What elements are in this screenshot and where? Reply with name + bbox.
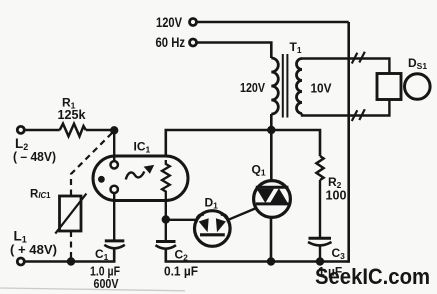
node B junction [110, 126, 118, 134]
wire secondary bottom lead to D51 [302, 100, 389, 116]
terminal L2 [13, 126, 56, 164]
photoresistor RIC1 [30, 189, 86, 234]
secondary winding 10V [297, 59, 303, 114]
svg-text:120V: 120V [240, 81, 266, 95]
terminal 120V input [156, 14, 197, 30]
optocoupler IC1 [93, 140, 188, 201]
wire L2 to R1 [24, 129, 59, 132]
svg-text:( – 48V): ( – 48V) [13, 149, 56, 164]
wire R2 to C3 [319, 180, 321, 238]
neon lamp electrodes [111, 161, 118, 168]
junction rail RIC1 [67, 257, 75, 265]
break marks top [352, 52, 365, 64]
wire C2 to bottom rail [166, 250, 349, 262]
wire bottom-left rail L1 to C1 [24, 249, 114, 261]
svg-text:120V: 120V [156, 14, 183, 30]
junction C3 rail [316, 257, 324, 265]
photoresistor element [162, 160, 170, 200]
wire right vertical 120V down to bottom rail [347, 22, 350, 263]
wire node B into lamp [113, 130, 115, 161]
wire primary bottom to node A [270, 114, 273, 131]
wire node C to D1 [166, 219, 197, 221]
optical coupling arrow [126, 172, 145, 180]
svg-text:125k: 125k [58, 107, 87, 122]
svg-text:( + 48V): ( + 48V) [10, 242, 57, 257]
wire lamp to C1 [113, 193, 115, 241]
wire 60Hz line to transformer primary [197, 43, 271, 59]
capacitor C3 [308, 238, 345, 278]
wire dashed node B to RIC1 [71, 133, 112, 196]
resistor R2 100 [316, 156, 346, 203]
wire node C to C2 [165, 220, 167, 242]
wire node C up corner to node A [166, 130, 320, 156]
break marks bottom [352, 109, 365, 121]
capacitor C2 0.1uF [156, 242, 199, 279]
terminal L1 [10, 229, 57, 266]
resistor R1 125k [58, 96, 87, 137]
diac D1 [195, 196, 231, 247]
wire photoresistor to node C [165, 200, 167, 220]
svg-text:100: 100 [326, 188, 347, 203]
sounder D51 [377, 56, 430, 100]
svg-text:60 Hz: 60 Hz [156, 35, 186, 50]
node C junction [162, 215, 170, 223]
wire secondary top lead to D51 [302, 59, 389, 74]
svg-text:RIC1: RIC1 [30, 189, 51, 201]
primary winding 120V [271, 58, 278, 114]
terminal 60Hz input [156, 35, 197, 50]
triac Q1 [252, 163, 291, 218]
svg-text:SeekIC.com: SeekIC.com [315, 264, 430, 289]
scan artifact line [0, 288, 185, 291]
svg-text:0.1 µF: 0.1 µF [164, 264, 198, 279]
wire C3 to rail [319, 246, 321, 262]
wire R1 to node B [86, 129, 114, 132]
svg-text:600V: 600V [94, 276, 119, 291]
capacitor C1 1.0uF 600V [90, 241, 125, 291]
core [282, 54, 284, 118]
wire Q1 top to node A [270, 130, 273, 181]
node A junction [267, 126, 275, 134]
transformer T1 [240, 40, 332, 118]
junction Q1 rail [267, 257, 275, 265]
wire D1 to Q1 gate [228, 208, 256, 220]
wire Q1 bottom to rail [270, 217, 273, 261]
wire dashed RIC1 to bottom rail [70, 231, 72, 262]
svg-text:10V: 10V [311, 82, 333, 96]
wire 120V line to right vertical [197, 21, 349, 24]
